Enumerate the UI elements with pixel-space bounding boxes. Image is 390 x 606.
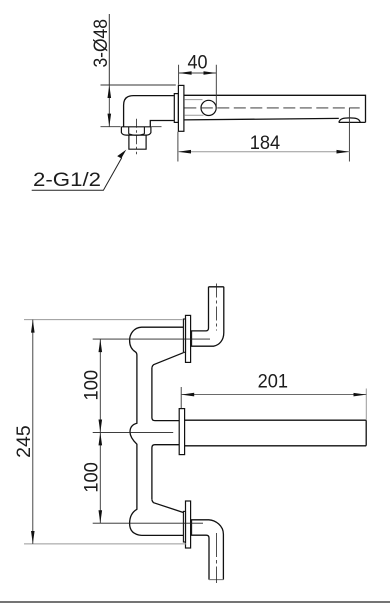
dimension 201 extension lines (181, 387, 366, 420)
dimension 245 line (32, 320, 34, 544)
nut centerline (135, 119, 137, 155)
leader stem for 3-O48 (108, 14, 110, 85)
svg-text:245: 245 (14, 425, 35, 458)
spout flange (plan) (179, 409, 184, 455)
label 100 upper (82, 370, 103, 401)
dimension 100 upper line (99, 339, 101, 432)
bottom branch pipe bottom edge (142, 534, 184, 536)
extension line at flange-top level (101, 84, 176, 86)
bottom supply ring (183, 511, 185, 542)
svg-text:2-G1/2: 2-G1/2 (33, 170, 101, 191)
branch centerline bottom / 100 extension (93, 522, 203, 524)
label 201 (258, 371, 288, 392)
svg-text:184: 184 (250, 133, 281, 154)
label 3-O48 (91, 19, 112, 68)
branch centerline top / 100 extension (93, 338, 210, 340)
label 245 (14, 425, 35, 458)
svg-text:100: 100 (82, 370, 103, 401)
svg-text:201: 201 (258, 371, 288, 392)
dimension 201 line (181, 394, 366, 396)
ring before wall plate (174, 94, 178, 123)
body column left edge with three bulges (130, 327, 142, 535)
bottom branch conical top side (152, 500, 184, 513)
label 100 lower (82, 462, 103, 493)
leader 2-G1/2 (32, 150, 127, 191)
svg-text:3-Ø48: 3-Ø48 (91, 19, 112, 68)
hex nut band (121, 127, 150, 135)
top supply flange (186, 315, 191, 362)
top branch pipe top edge (142, 326, 184, 328)
bottom elbow centerline (216, 533, 218, 583)
dimension 3-O48 vertical dimension line with arrows (108, 85, 110, 127)
column right edge lower segment (152, 445, 179, 500)
nut lower block (129, 135, 146, 149)
spout centerline (dashed) (184, 107, 359, 109)
extension line at nut-top level (101, 126, 162, 128)
column right edge upper segment with spout fillets (152, 368, 179, 421)
bottom border line (0, 601, 390, 603)
bottom supply flange (186, 501, 191, 548)
spout tube (plan) (185, 420, 367, 446)
top elbow turning up (191, 287, 224, 346)
aerator dome at spout tip (339, 118, 361, 123)
inner bore lines (gray) (184, 100, 203, 116)
dimension 184 extension lines (178, 108, 350, 162)
dimension 245 extension lines (gray) (24, 320, 186, 544)
label 40 (188, 53, 208, 74)
svg-text:40: 40 (188, 53, 208, 74)
top elbow centerline (216, 284, 218, 331)
spout elbow body (124, 96, 174, 127)
svg-text:100: 100 (82, 462, 103, 493)
dimension 40 line (179, 72, 217, 74)
bottom elbow turning down (191, 520, 224, 580)
wall plate flange (side view) (178, 85, 184, 131)
dimension 184 line (178, 151, 349, 153)
label 184 (250, 133, 281, 154)
branch centerline middle / 100 extension (93, 431, 174, 433)
sensor window circle (201, 100, 216, 115)
dimension 100 lower line (99, 432, 101, 523)
dimension 40 extension lines (179, 65, 217, 107)
top supply ring (183, 319, 185, 352)
label 2-G1/2 (33, 170, 101, 191)
top branch conical underside (152, 353, 184, 368)
spout tube outline (184, 95, 366, 122)
